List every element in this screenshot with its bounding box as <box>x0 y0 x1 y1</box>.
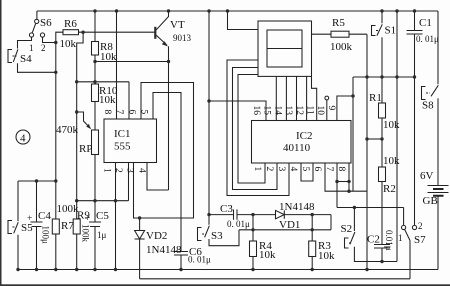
svg-text:10: 10 <box>315 106 325 116</box>
svg-text:10k: 10k <box>99 94 116 106</box>
svg-text:5: 5 <box>139 110 149 115</box>
svg-text:S6: S6 <box>40 17 52 29</box>
svg-text:S2: S2 <box>341 223 353 235</box>
svg-text:10k: 10k <box>383 119 400 131</box>
svg-text:10k: 10k <box>383 155 400 167</box>
svg-text:10k: 10k <box>100 51 117 63</box>
svg-text:0. 01μ: 0. 01μ <box>188 255 211 265</box>
svg-text:5: 5 <box>300 167 310 172</box>
svg-text:VD2: VD2 <box>146 230 167 242</box>
svg-text:3: 3 <box>276 167 286 172</box>
svg-text:1: 1 <box>398 233 403 243</box>
svg-text:S8: S8 <box>422 100 434 112</box>
svg-text:14: 14 <box>272 106 282 116</box>
svg-text:13: 13 <box>283 106 293 116</box>
svg-text:C5: C5 <box>96 210 109 222</box>
svg-text:+: + <box>27 214 32 224</box>
svg-text:S3: S3 <box>211 230 223 242</box>
svg-text:RP: RP <box>79 143 92 155</box>
svg-text:15: 15 <box>262 106 272 116</box>
svg-text:2: 2 <box>41 43 46 53</box>
svg-text:10k: 10k <box>60 38 77 50</box>
svg-text:4: 4 <box>137 168 147 173</box>
svg-text:100k: 100k <box>330 41 353 53</box>
svg-text:+: + <box>85 214 90 224</box>
svg-text:8: 8 <box>102 110 112 115</box>
svg-text:7: 7 <box>114 110 124 115</box>
svg-text:100k: 100k <box>57 203 80 215</box>
svg-text:10k: 10k <box>318 250 335 262</box>
svg-text:2: 2 <box>418 221 423 231</box>
svg-text:IC1: IC1 <box>114 128 131 140</box>
svg-text:6V: 6V <box>420 170 434 182</box>
svg-text:4: 4 <box>20 133 26 145</box>
svg-text:1: 1 <box>29 43 34 53</box>
svg-text:0.01μ: 0.01μ <box>384 230 394 251</box>
svg-text:1N4148: 1N4148 <box>146 244 182 256</box>
svg-text:R7: R7 <box>61 220 74 232</box>
svg-text:100μ: 100μ <box>41 226 51 245</box>
svg-text:100k: 100k <box>81 224 91 243</box>
svg-text:1: 1 <box>102 168 112 173</box>
svg-text:7: 7 <box>324 167 334 172</box>
svg-text:IC2: IC2 <box>296 130 313 142</box>
svg-text:11: 11 <box>305 106 315 115</box>
svg-text:C1: C1 <box>419 17 432 29</box>
svg-text:12: 12 <box>294 106 304 116</box>
svg-text:R1: R1 <box>369 92 382 104</box>
svg-text:1μ: 1μ <box>97 230 107 240</box>
svg-text:C3: C3 <box>220 203 233 215</box>
svg-text:1: 1 <box>252 167 262 172</box>
svg-text:R5: R5 <box>332 17 345 29</box>
svg-text:S4: S4 <box>20 53 32 65</box>
svg-text:10k: 10k <box>259 249 276 261</box>
svg-text:6: 6 <box>127 110 137 115</box>
svg-text:C4: C4 <box>38 210 51 222</box>
svg-text:2: 2 <box>113 168 123 173</box>
svg-text:1N4148: 1N4148 <box>279 201 315 213</box>
svg-text:0. 01μ: 0. 01μ <box>416 34 439 44</box>
svg-text:8: 8 <box>336 167 346 172</box>
svg-text:6: 6 <box>312 167 322 172</box>
svg-text:VD1: VD1 <box>279 219 300 231</box>
svg-text:C2: C2 <box>367 234 380 246</box>
svg-text:4: 4 <box>288 167 298 172</box>
svg-text:40110: 40110 <box>283 142 311 154</box>
svg-text:3: 3 <box>125 168 135 173</box>
svg-text:555: 555 <box>114 141 131 153</box>
svg-text:VT: VT <box>170 19 185 31</box>
svg-text:R6: R6 <box>64 18 77 30</box>
svg-text:GB: GB <box>423 195 438 207</box>
svg-text:0. 01μ: 0. 01μ <box>227 219 250 229</box>
svg-text:R2: R2 <box>383 183 396 195</box>
svg-text:S7: S7 <box>414 234 426 246</box>
svg-text:S1: S1 <box>385 25 397 37</box>
svg-text:2: 2 <box>264 167 274 172</box>
svg-text:470k: 470k <box>56 124 79 136</box>
svg-text:9: 9 <box>326 106 336 111</box>
svg-text:16: 16 <box>251 106 261 116</box>
svg-text:9013: 9013 <box>173 33 192 43</box>
